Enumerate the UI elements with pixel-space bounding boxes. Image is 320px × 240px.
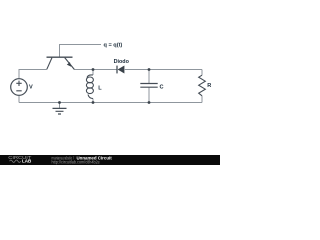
svg-text:Diodo: Diodo [114,59,130,65]
svg-text:R: R [207,83,211,89]
svg-text:L: L [98,85,102,91]
svg-text:http://circuitlab.com/c8h4b2e: http://circuitlab.com/c8h4b2e [52,159,101,164]
svg-text:LAB: LAB [22,159,32,164]
svg-text:V: V [29,84,33,90]
svg-text:q = q(t): q = q(t) [104,43,123,49]
svg-text:C: C [160,84,164,90]
